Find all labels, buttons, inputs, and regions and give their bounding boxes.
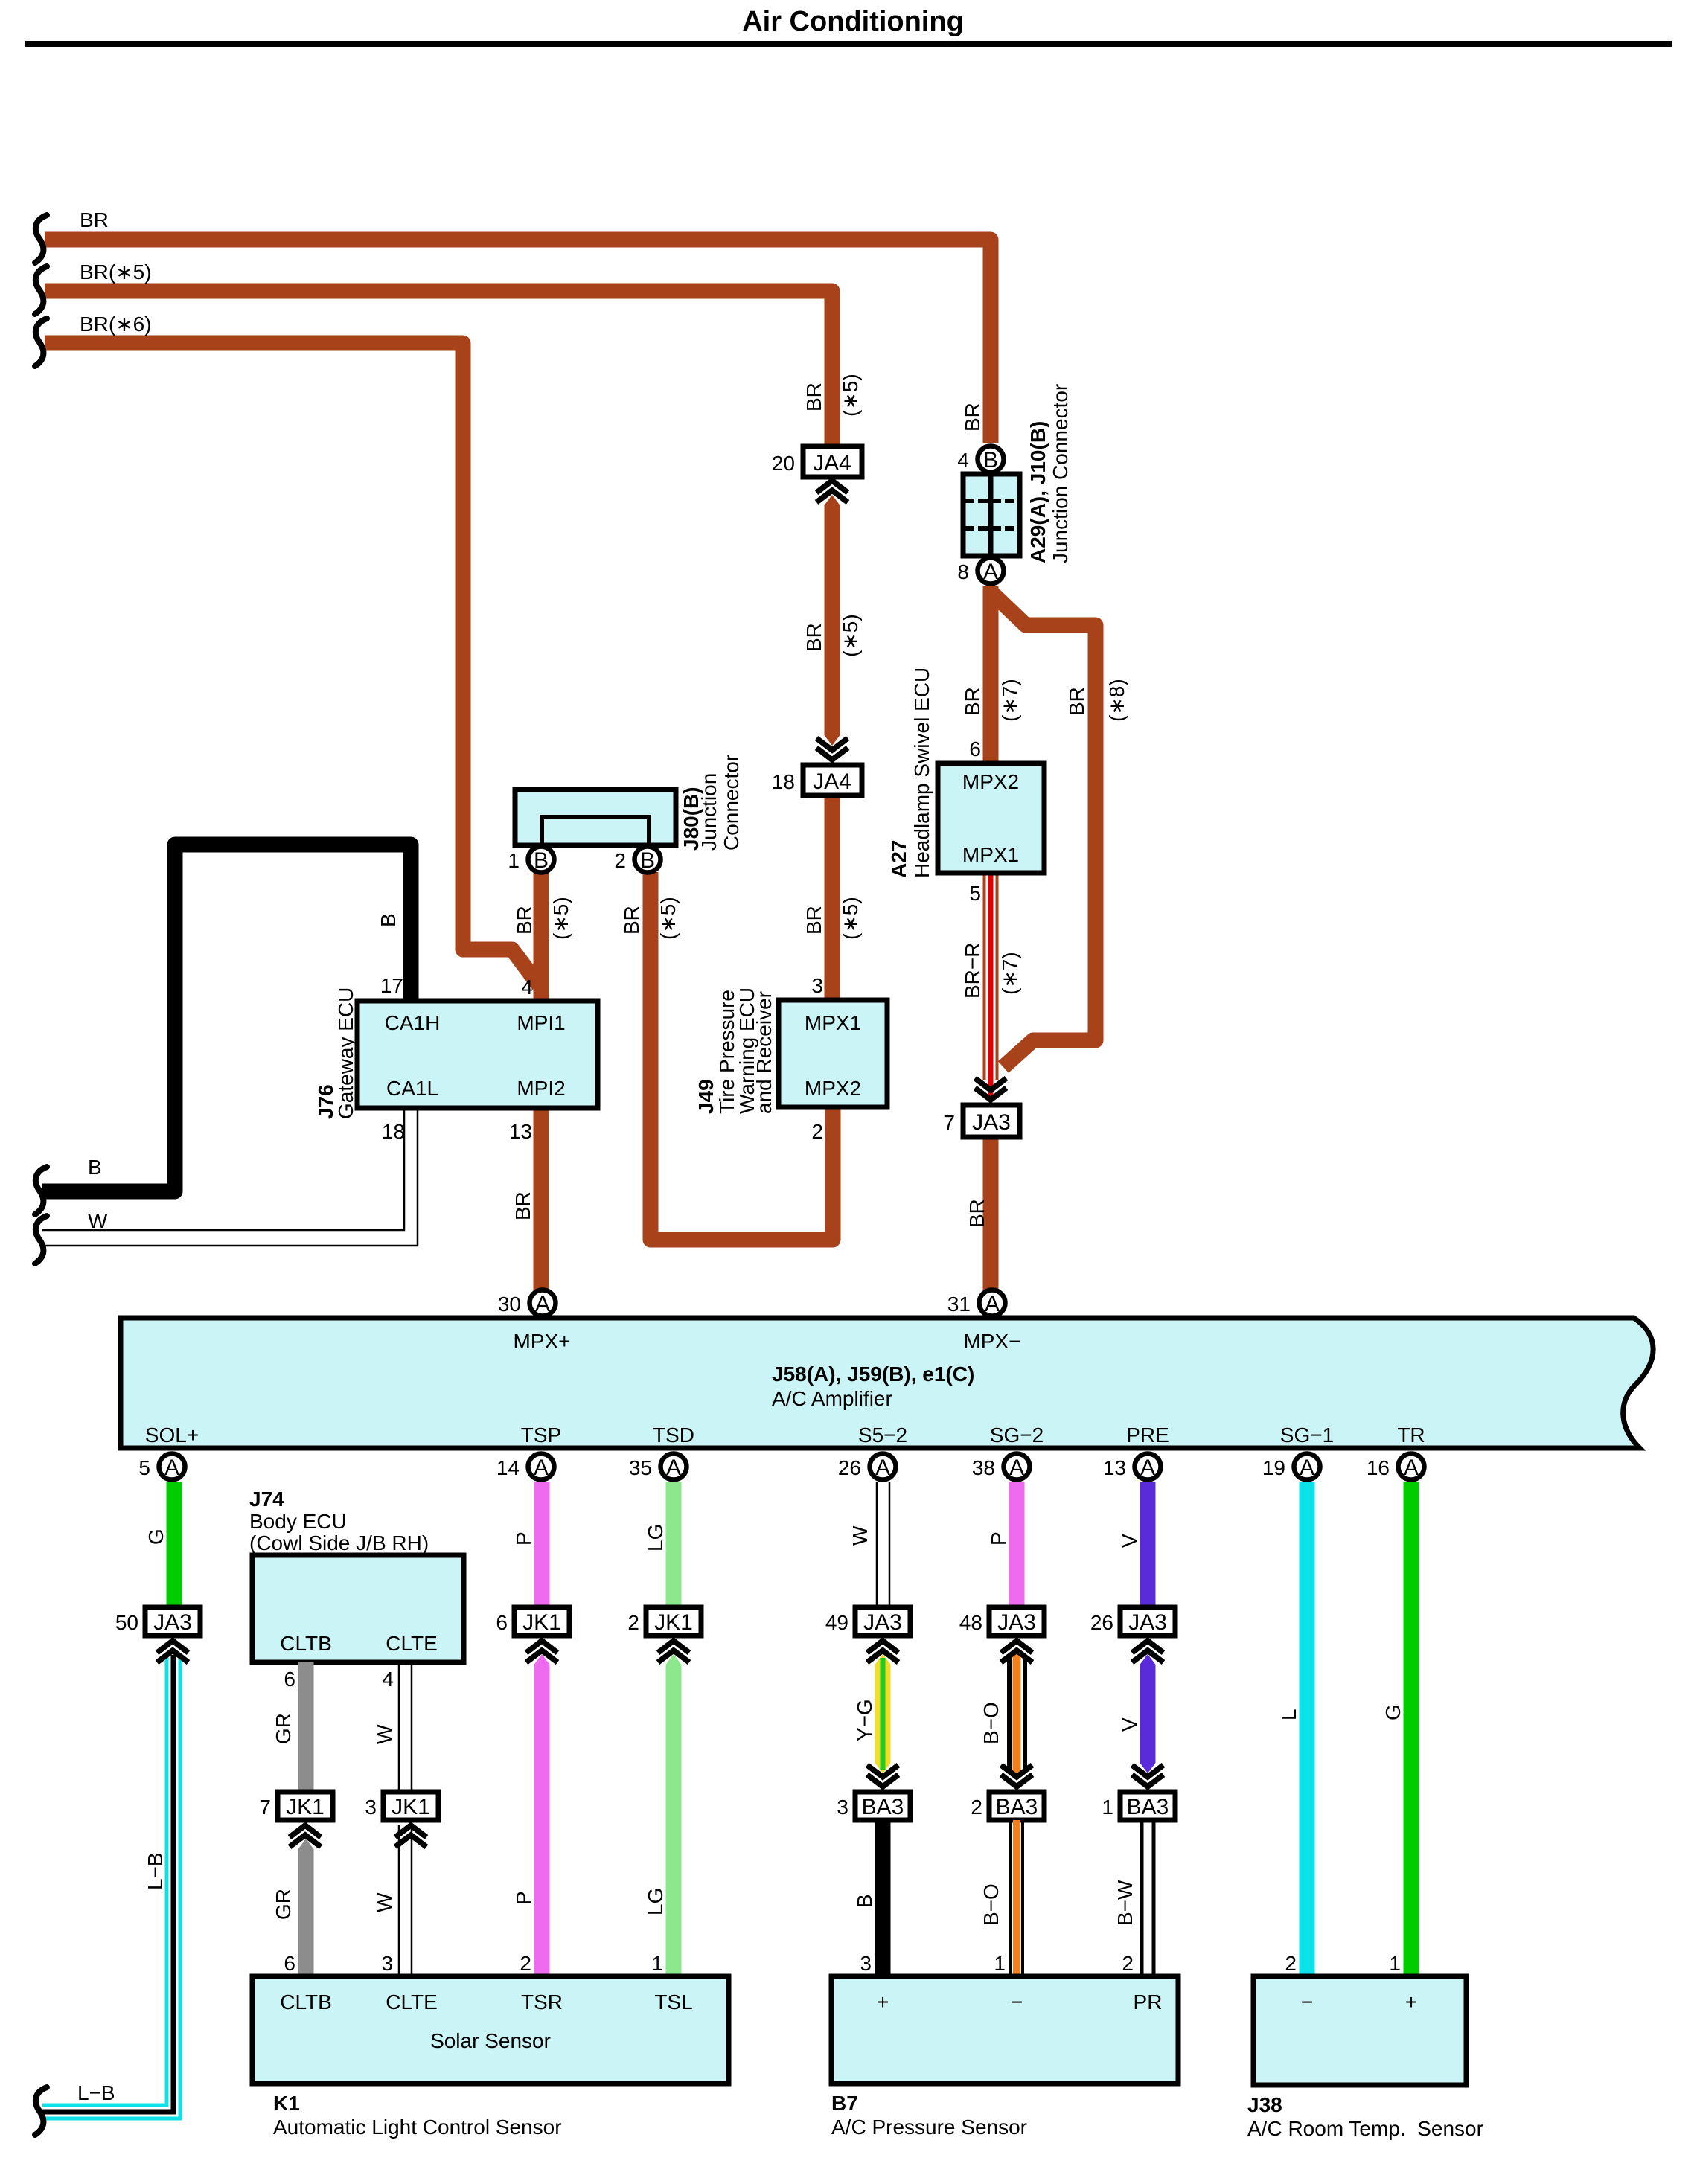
wire B-O from BA3 2 to pressure sensor -: [1011, 1820, 1023, 1976]
svg-text:(∗7): (∗7): [998, 679, 1021, 722]
svg-text:TSR: TSR: [521, 1991, 563, 2014]
label J76 Gateway ECU: [314, 987, 357, 1119]
wire BR-R from A27 pin 5 to JA3 7: [983, 873, 999, 1098]
label J80(B) Junction Connector: [680, 755, 743, 851]
svg-text:GR: GR: [272, 1713, 295, 1744]
svg-text:A29(A), J10(B): A29(A), J10(B): [1026, 421, 1049, 563]
svg-text:18: 18: [772, 770, 795, 793]
svg-text:CLTE: CLTE: [386, 1991, 438, 2014]
pin 5(A) of amplifier: [138, 1454, 185, 1481]
wire label LG: [644, 1524, 667, 1551]
svg-text:J49: J49: [694, 1079, 718, 1114]
svg-text:30: 30: [498, 1293, 521, 1316]
svg-text:MPX1: MPX1: [962, 843, 1019, 866]
pin 16(A) of amplifier: [1367, 1454, 1425, 1481]
svg-text:(∗5): (∗5): [549, 897, 572, 940]
svg-text:2: 2: [811, 1120, 823, 1143]
svg-text:V: V: [1118, 1717, 1141, 1732]
svg-text:1: 1: [1102, 1796, 1113, 1819]
svg-text:(Cowl Side J/B RH): (Cowl Side J/B RH): [249, 1531, 429, 1554]
svg-text:B−O: B−O: [979, 1702, 1003, 1744]
connector JA4 pin 20: [772, 446, 862, 477]
wire label W column: [848, 1525, 872, 1546]
svg-text:A: A: [666, 1456, 681, 1480]
svg-text:BR: BR: [961, 687, 984, 716]
svg-text:1: 1: [651, 1952, 663, 1975]
svg-text:5: 5: [138, 1456, 150, 1479]
svg-text:Solar Sensor: Solar Sensor: [430, 2029, 551, 2052]
svg-text:A/C Amplifier: A/C Amplifier: [772, 1387, 892, 1410]
wire BR(*8) branch around A27: [992, 593, 1096, 1067]
wire label P column 38: [987, 1531, 1010, 1546]
pin 8(A) of A29: [957, 558, 1003, 585]
svg-text:L: L: [1277, 1709, 1300, 1720]
svg-text:L−B: L−B: [144, 1852, 167, 1890]
svg-text:PR: PR: [1134, 1991, 1163, 2014]
svg-text:LG: LG: [644, 1888, 667, 1915]
wire label B-O lower: [979, 1883, 1003, 1926]
wire label W lower: [373, 1892, 396, 1912]
svg-text:−: −: [1011, 1991, 1023, 2014]
connector JA3 pin 7: [943, 1105, 1020, 1137]
wire label BR (*5) above J49 pin 3: [802, 897, 862, 940]
svg-text:Connector: Connector: [720, 755, 743, 851]
label A27 Headlamp Swivel ECU: [887, 667, 933, 878]
pin 26(A) of amplifier: [838, 1454, 896, 1481]
svg-text:A: A: [535, 1292, 550, 1316]
connector JA3 pin 49: [825, 1607, 910, 1636]
pin 31(A) of amplifier: [947, 1290, 1006, 1317]
splice chevrons below JK1 7: [290, 1825, 321, 1847]
svg-text:17: 17: [380, 974, 403, 997]
wire P from amplifier pin 14 to JK1 6: [534, 1482, 550, 1607]
title underline: [25, 41, 1672, 47]
svg-text:B: B: [853, 1894, 876, 1908]
wire BR from J80 pin 1 to Gateway ECU pin 4: [534, 872, 549, 1001]
wire label GR lower: [272, 1889, 295, 1920]
svg-text:BR: BR: [802, 382, 825, 411]
svg-text:4: 4: [521, 976, 533, 999]
svg-text:SOL+: SOL+: [145, 1424, 199, 1447]
svg-text:48: 48: [959, 1611, 982, 1634]
svg-text:+: +: [1405, 1991, 1417, 2014]
svg-text:MPX2: MPX2: [805, 1077, 861, 1100]
wire BR(*5) from JA4 18 to J49 pin 3: [825, 795, 840, 1000]
svg-text:W: W: [373, 1724, 396, 1744]
harness brace for wire B: [35, 1167, 47, 1214]
pin 30(A) of amplifier: [498, 1290, 556, 1317]
svg-text:P: P: [512, 1531, 535, 1546]
svg-text:3: 3: [860, 1952, 872, 1975]
pin 19(A) of amplifier: [1262, 1454, 1320, 1481]
svg-text:SG−1: SG−1: [1280, 1424, 1334, 1447]
wire W from J74 CLTE to JK1 3: [399, 1662, 412, 1792]
svg-text:3: 3: [837, 1796, 848, 1819]
svg-text:MPX−: MPX−: [963, 1330, 1020, 1353]
svg-text:2: 2: [1285, 1952, 1297, 1975]
svg-text:B: B: [640, 848, 655, 873]
svg-text:BR: BR: [961, 403, 984, 432]
svg-text:BA3: BA3: [862, 1795, 904, 1819]
wire GR from JK1 7 to solar sensor CLTB: [298, 1839, 314, 1976]
svg-text:G: G: [1381, 1704, 1404, 1720]
svg-text:JK1: JK1: [522, 1610, 561, 1635]
svg-text:1: 1: [1389, 1952, 1401, 1975]
svg-text:5: 5: [969, 882, 981, 905]
svg-text:B7: B7: [831, 2092, 858, 2115]
wire W from amplifier pin 26 to JA3 49: [877, 1482, 889, 1607]
label J38 A/C Room Temp Sensor: [1247, 2093, 1483, 2140]
junction connector J80(B) box: [515, 790, 676, 845]
wire black B from Gateway ECU pin 17 to harness: [42, 845, 411, 1191]
wire BR from JA3 7 to amplifier pin 31: [983, 1137, 999, 1291]
svg-text:16: 16: [1367, 1456, 1390, 1479]
splice chevrons below JA3 26: [1132, 1641, 1163, 1662]
svg-text:A: A: [1300, 1456, 1314, 1480]
wire label G column 16: [1381, 1704, 1404, 1720]
svg-text:Body ECU: Body ECU: [249, 1510, 347, 1533]
svg-text:K1: K1: [273, 2092, 300, 2115]
ECU J74 box: [252, 1555, 464, 1662]
svg-text:J74: J74: [249, 1488, 284, 1511]
svg-text:JA3: JA3: [997, 1610, 1036, 1635]
wire BR from harness to A29 junction connector pin 4: [45, 240, 991, 443]
wire L-B from JA3 50 to harness: [42, 1655, 173, 2112]
svg-text:G: G: [144, 1528, 167, 1545]
svg-text:A: A: [1140, 1456, 1155, 1480]
label B7 A/C Pressure Sensor: [831, 2092, 1027, 2139]
svg-text:7: 7: [259, 1796, 271, 1819]
connector JA4 pin 18: [772, 765, 862, 795]
svg-text:TSD: TSD: [653, 1424, 694, 1447]
svg-text:BA3: BA3: [996, 1795, 1038, 1819]
A/C Amplifier box J58 J59 e1: [121, 1318, 1653, 1448]
wire label L-B rotated: [144, 1852, 167, 1890]
svg-text:P: P: [987, 1531, 1010, 1546]
svg-text:−: −: [1301, 1991, 1313, 2014]
svg-text:S5−2: S5−2: [858, 1424, 907, 1447]
svg-text:JK1: JK1: [392, 1795, 430, 1819]
svg-text:26: 26: [1090, 1611, 1113, 1634]
splice chevrons above JA4 18: [816, 738, 848, 760]
svg-text:A/C Room Temp. Sensor: A/C Room Temp. Sensor: [1247, 2117, 1483, 2140]
wire G from amplifier pin 16 to room temp sensor +: [1404, 1482, 1419, 1976]
connector JK1 pin 3: [365, 1792, 438, 1820]
svg-text:1: 1: [508, 849, 520, 872]
svg-text:(∗5): (∗5): [656, 897, 680, 940]
pin 13(A) of amplifier: [1103, 1454, 1161, 1481]
svg-text:B: B: [983, 448, 998, 473]
splice chevrons above BA3 2: [1001, 1765, 1032, 1787]
connector BA3 pin 2: [971, 1792, 1044, 1820]
wire label BR below JA3 7: [965, 1199, 988, 1228]
svg-text:A: A: [983, 560, 998, 584]
wire label BR above pin 30: [511, 1191, 534, 1220]
svg-text:3: 3: [381, 1952, 393, 1975]
pin 35(A) of amplifier: [629, 1454, 687, 1481]
svg-text:(∗7): (∗7): [998, 952, 1021, 995]
label B rotated near pin 17: [377, 913, 400, 927]
svg-text:JA3: JA3: [1128, 1610, 1167, 1635]
component B7 A/C Pressure Sensor box: [831, 1976, 1178, 2084]
svg-text:18: 18: [382, 1120, 405, 1143]
wire B from BA3 3 to pressure sensor +: [875, 1820, 891, 1976]
svg-text:A: A: [534, 1456, 549, 1480]
wire LG from amplifier pin 35 to JK1 2: [666, 1482, 682, 1607]
svg-text:LG: LG: [644, 1524, 667, 1551]
wire L from amplifier pin 19 to room temp sensor -: [1300, 1482, 1315, 1976]
svg-text:BR: BR: [620, 906, 643, 935]
svg-text:(∗5): (∗5): [839, 614, 862, 657]
wire BR(*6) from harness to Gateway ECU pin 4: [45, 343, 539, 985]
svg-text:BR−R: BR−R: [961, 943, 984, 999]
svg-text:6: 6: [969, 737, 981, 760]
svg-text:JK1: JK1: [286, 1795, 325, 1819]
svg-text:2: 2: [1122, 1952, 1134, 1975]
svg-text:(∗8): (∗8): [1105, 679, 1128, 722]
svg-text:JA4: JA4: [813, 769, 851, 794]
svg-text:J58(A), J59(B), e1(C): J58(A), J59(B), e1(C): [772, 1362, 974, 1386]
svg-text:Junction Connector: Junction Connector: [1049, 384, 1072, 563]
svg-text:W: W: [373, 1892, 396, 1912]
wire label GR: [272, 1713, 295, 1744]
svg-text:CLTE: CLTE: [386, 1632, 438, 1655]
connector JA3 pin 48: [959, 1607, 1044, 1636]
svg-text:J38: J38: [1247, 2093, 1282, 2116]
svg-text:20: 20: [772, 452, 795, 475]
wire white W from Gateway ECU pin 18 to harness: [42, 1108, 418, 1246]
label A29(A), J10(B) Junction Connector: [1026, 384, 1072, 563]
pin 4(B) of A29: [957, 446, 1003, 473]
svg-text:TSL: TSL: [654, 1991, 692, 2014]
wire Y-G from JA3 49 to BA3 3: [875, 1654, 891, 1773]
svg-text:MPI2: MPI2: [517, 1077, 565, 1100]
wire label P lower: [512, 1891, 535, 1905]
svg-text:CLTB: CLTB: [280, 1991, 332, 2014]
connector JK1 pin 6: [496, 1607, 569, 1636]
splice chevrons above BA3 1: [1132, 1765, 1163, 1787]
svg-text:TR: TR: [1397, 1424, 1425, 1447]
svg-text:2: 2: [614, 849, 626, 872]
connector JA3 pin 50: [115, 1607, 200, 1636]
harness brace for wire BR(*5): [35, 266, 47, 314]
svg-text:A: A: [875, 1456, 890, 1480]
wire BR(*5) between JA4 20 and JA4 18: [825, 495, 840, 746]
svg-text:14: 14: [496, 1456, 520, 1479]
wire label G: [144, 1528, 167, 1545]
svg-text:B: B: [534, 848, 549, 873]
wire W from JK1 3 to solar sensor CLTE: [399, 1825, 412, 1976]
svg-text:8: 8: [957, 560, 969, 583]
pin 14(A) of amplifier: [496, 1454, 555, 1481]
svg-text:SG−2: SG−2: [990, 1424, 1044, 1447]
svg-text:JK1: JK1: [654, 1610, 693, 1635]
svg-text:B−O: B−O: [979, 1883, 1003, 1926]
ECU J49 Tire Pressure box: [779, 1000, 887, 1107]
label J74 Body ECU (Cowl Side J/B RH): [249, 1488, 429, 1554]
splice chevrons below JA3 50: [157, 1641, 188, 1662]
svg-text:GR: GR: [272, 1889, 295, 1920]
svg-text:and Receiver: and Receiver: [752, 991, 776, 1114]
wire label W: [373, 1724, 396, 1744]
splice chevrons above JA3 7: [975, 1078, 1006, 1100]
harness brace for wire W: [35, 1216, 47, 1264]
wire BR from Gateway ECU pin 13 to amplifier pin 30: [534, 1108, 549, 1291]
svg-text:BR(∗5): BR(∗5): [80, 260, 152, 284]
svg-text:A: A: [985, 1292, 1000, 1316]
svg-text:JA3: JA3: [153, 1610, 192, 1635]
component J38 A/C Room Temp Sensor box: [1253, 1976, 1466, 2085]
connector BA3 pin 1: [1102, 1792, 1175, 1820]
svg-text:(∗5): (∗5): [839, 374, 862, 417]
svg-text:A: A: [1009, 1456, 1024, 1480]
connector JK1 pin 2: [627, 1607, 701, 1636]
wire label B column: [853, 1894, 876, 1908]
svg-text:W: W: [88, 1209, 108, 1232]
svg-text:3: 3: [365, 1796, 377, 1819]
svg-text:1: 1: [994, 1952, 1006, 1975]
wire B-O from JA3 48 to BA3 2: [1009, 1653, 1025, 1775]
svg-text:W: W: [848, 1525, 872, 1546]
svg-text:BR: BR: [965, 1199, 988, 1228]
wire label BR (*5) on J80 pin2 riser: [620, 897, 680, 940]
junction connector A29(A) J10(B) box: [963, 474, 1020, 556]
wire label BR (*5) on J80 pin1 drop: [513, 897, 572, 940]
wire BR from A29 pin 8 to A27 pin 6: [983, 586, 999, 763]
svg-text:BR(∗6): BR(∗6): [80, 313, 152, 336]
svg-text:PRE: PRE: [1126, 1424, 1169, 1447]
splice chevrons below JA4 20: [816, 481, 848, 502]
connector JK1 pin 7: [259, 1792, 333, 1820]
svg-text:38: 38: [972, 1456, 995, 1479]
svg-text:BR: BR: [513, 906, 536, 935]
pin 1(B) of J80: [508, 847, 554, 874]
svg-text:BR: BR: [80, 208, 109, 231]
wire label BR (*5) mid segment: [802, 614, 862, 657]
svg-text:JA3: JA3: [863, 1610, 902, 1635]
wire label L: [1277, 1709, 1300, 1720]
svg-text:50: 50: [115, 1611, 138, 1634]
wire label BR-R (*7): [961, 943, 1021, 999]
svg-text:B: B: [377, 913, 400, 927]
svg-text:JA3: JA3: [972, 1110, 1011, 1135]
splice chevrons below JK1 3: [395, 1825, 426, 1847]
svg-text:MPX1: MPX1: [805, 1011, 861, 1034]
wire P from JK1 6 to solar sensor TSR: [534, 1654, 550, 1976]
wire label Y-G: [853, 1699, 876, 1741]
wire GR from J74 CLTB to JK1 7: [298, 1662, 314, 1792]
svg-text:BR: BR: [802, 623, 825, 652]
wire BR(*5) from harness to JA4 pin 20: [45, 291, 832, 447]
wire label BR (*7): [961, 679, 1021, 722]
svg-text:V: V: [1118, 1534, 1141, 1548]
wire label V: [1118, 1534, 1141, 1548]
splice chevrons below JK1 6: [526, 1641, 557, 1662]
svg-text:A: A: [164, 1456, 179, 1480]
svg-text:19: 19: [1262, 1456, 1285, 1479]
wire label V lower: [1118, 1717, 1141, 1732]
svg-text:Air Conditioning: Air Conditioning: [742, 6, 964, 37]
svg-text:P: P: [512, 1891, 535, 1905]
splice chevrons below JA3 48: [1001, 1641, 1032, 1662]
connector BA3 pin 3: [837, 1792, 910, 1820]
svg-text:26: 26: [838, 1456, 861, 1479]
svg-text:TSP: TSP: [521, 1424, 561, 1447]
harness brace for wire BR(*6): [35, 318, 47, 366]
splice chevrons below JK1 2: [658, 1641, 689, 1662]
svg-text:7: 7: [943, 1111, 955, 1134]
component K1 Solar Sensor box: [252, 1976, 729, 2084]
ECU J76 Gateway box: [357, 1001, 598, 1108]
svg-text:BR: BR: [511, 1191, 534, 1220]
svg-text:Junction: Junction: [697, 773, 720, 851]
harness brace for wire BR: [35, 215, 47, 263]
svg-text:Y−G: Y−G: [853, 1699, 876, 1741]
svg-text:Automatic Light Control Sensor: Automatic Light Control Sensor: [273, 2116, 562, 2139]
pin 2(B) of J80: [614, 847, 660, 874]
wire G from amplifier pin 5 to JA3 50: [167, 1482, 182, 1607]
svg-text:2: 2: [971, 1796, 982, 1819]
svg-text:CA1L: CA1L: [386, 1077, 438, 1100]
svg-text:BA3: BA3: [1127, 1795, 1169, 1819]
svg-text:6: 6: [496, 1611, 508, 1634]
wire label BR (*8): [1065, 679, 1128, 722]
wire V from amplifier pin 13 to JA3 26: [1140, 1482, 1156, 1607]
svg-text:6: 6: [284, 1952, 295, 1975]
label J49 Tire Pressure Warning ECU and Receiver: [694, 987, 776, 1114]
wire label BR above A29 pin 4: [961, 403, 984, 432]
svg-text:Headlamp Swivel ECU: Headlamp Swivel ECU: [910, 667, 933, 878]
svg-text:3: 3: [811, 974, 823, 997]
svg-text:(∗5): (∗5): [839, 897, 862, 940]
svg-text:2: 2: [627, 1611, 639, 1634]
wire P from amplifier pin 38 to JA3 48: [1009, 1482, 1025, 1607]
svg-text:49: 49: [825, 1611, 848, 1634]
wire label B-W: [1113, 1880, 1137, 1926]
svg-text:6: 6: [284, 1668, 295, 1691]
wire label BR (*5) above JA4 20: [802, 374, 862, 417]
svg-text:BR: BR: [802, 906, 825, 935]
wire V from JA3 26 to BA3 1: [1140, 1654, 1156, 1773]
ECU A27 Headlamp Swivel box: [938, 763, 1044, 873]
wire label P: [512, 1531, 535, 1546]
splice chevrons above BA3 3: [867, 1765, 898, 1787]
harness brace for wire L-B: [35, 2087, 47, 2135]
wire LG from JK1 2 to solar sensor TSL: [666, 1654, 682, 1976]
svg-text:CA1H: CA1H: [385, 1011, 441, 1034]
svg-text:4: 4: [382, 1668, 394, 1691]
wire BR from J49 pin 2 to J80 pin 2: [651, 872, 833, 1240]
svg-text:13: 13: [509, 1120, 532, 1143]
wire label LG lower: [644, 1888, 667, 1915]
svg-text:JA4: JA4: [813, 451, 851, 475]
svg-text:31: 31: [947, 1293, 971, 1316]
svg-text:35: 35: [629, 1456, 652, 1479]
svg-text:A27: A27: [887, 840, 910, 878]
connector JA3 pin 26: [1090, 1607, 1175, 1636]
svg-text:MPI1: MPI1: [517, 1011, 565, 1034]
splice chevrons below JA3 49: [867, 1641, 898, 1662]
svg-text:B−W: B−W: [1113, 1880, 1137, 1926]
wire label B-O: [979, 1702, 1003, 1744]
svg-text:MPX2: MPX2: [962, 770, 1019, 793]
svg-text:Gateway ECU: Gateway ECU: [334, 987, 357, 1119]
wire B-W from BA3 1 to pressure sensor PR: [1142, 1820, 1154, 1976]
pin 38(A) of amplifier: [972, 1454, 1030, 1481]
svg-text:2: 2: [520, 1952, 531, 1975]
svg-text:4: 4: [957, 449, 969, 472]
svg-text:+: +: [877, 1991, 889, 2014]
